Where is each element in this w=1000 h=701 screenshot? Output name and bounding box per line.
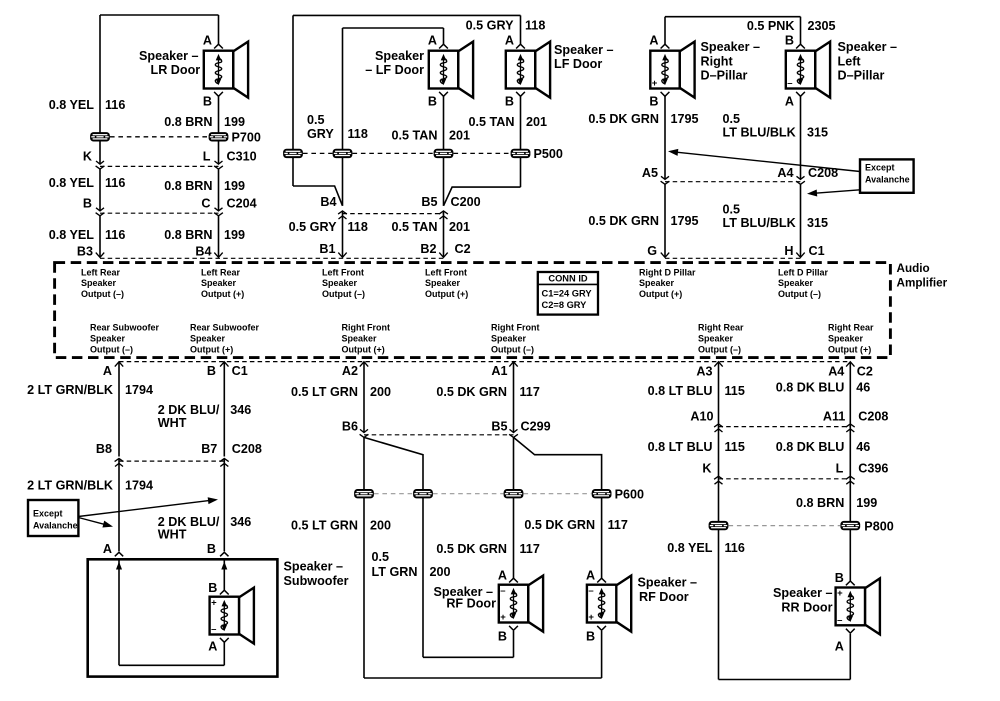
grommet P500 3 xyxy=(434,149,454,158)
wire 0.5 GRY 118 outer left vertical xyxy=(292,15,294,186)
svg-text:Speaker: Speaker xyxy=(828,333,864,343)
wire jog outer-right to B5 xyxy=(444,187,521,206)
svg-text:46: 46 xyxy=(856,381,870,395)
wire jog B5 to fourth vertical xyxy=(514,437,602,578)
svg-text:200: 200 xyxy=(370,519,391,533)
grommet P700 right xyxy=(209,132,229,141)
svg-text:B6: B6 xyxy=(342,420,358,434)
svg-text:–: – xyxy=(500,585,505,596)
svg-text:C: C xyxy=(201,197,210,211)
svg-text:117: 117 xyxy=(520,542,540,556)
svg-text:C208: C208 xyxy=(808,166,838,180)
svg-text:115: 115 xyxy=(725,440,745,454)
wire bottom inside subwoofer box xyxy=(119,664,224,666)
audio amplifier dashed box xyxy=(55,263,891,358)
svg-text:B: B xyxy=(207,364,216,378)
arrow except-avalanche to right wire xyxy=(812,190,860,194)
connector C299 crossing xyxy=(360,429,368,432)
subwoofer enclosure box xyxy=(88,559,278,676)
svg-text:+: + xyxy=(211,597,217,608)
svg-text:199: 199 xyxy=(224,179,245,193)
svg-text:B: B xyxy=(428,95,437,109)
svg-text:Speaker: Speaker xyxy=(375,49,424,63)
svg-text:P800: P800 xyxy=(864,520,893,534)
wire 0.5 GRY 118 inner vertical xyxy=(342,28,344,206)
svg-text:0.8 BRN: 0.8 BRN xyxy=(164,115,212,129)
svg-text:Left D Pillar: Left D Pillar xyxy=(778,267,829,277)
svg-text:Except: Except xyxy=(865,163,895,173)
svg-text:A4: A4 xyxy=(777,166,793,180)
grommet P600 1 xyxy=(354,489,374,498)
svg-text:C1: C1 xyxy=(809,244,825,258)
svg-text:Left Front: Left Front xyxy=(425,267,467,277)
svg-text:Speaker: Speaker xyxy=(425,278,461,288)
svg-text:116: 116 xyxy=(105,176,125,190)
svg-text:0.5 LT GRN: 0.5 LT GRN xyxy=(291,385,358,399)
svg-text:CONN ID: CONN ID xyxy=(548,274,588,284)
svg-text:Speaker –: Speaker – xyxy=(838,40,898,54)
svg-text:118: 118 xyxy=(348,127,368,141)
wire 0.5 DK GRN 1795 upper xyxy=(664,96,666,179)
dashed link P500 xyxy=(303,152,333,154)
svg-text:46: 46 xyxy=(856,440,870,454)
svg-text:Output (–): Output (–) xyxy=(491,344,534,354)
svg-text:Speaker: Speaker xyxy=(491,333,527,343)
box Except Avalanche (top) xyxy=(860,159,914,192)
svg-text:B4: B4 xyxy=(320,195,336,209)
CONN ID table xyxy=(538,272,598,315)
svg-text:–: – xyxy=(588,585,593,596)
dashed link P700 xyxy=(110,136,209,138)
arrow except-avalanche to wire B xyxy=(78,500,213,516)
svg-text:Speaker: Speaker xyxy=(639,278,675,288)
svg-text:C1=24 GRY: C1=24 GRY xyxy=(542,288,593,298)
svg-text:0.8 YEL: 0.8 YEL xyxy=(667,541,713,555)
svg-text:LT GRN: LT GRN xyxy=(372,565,418,579)
dashed link P800 xyxy=(729,525,841,527)
connector C208 crossing bottom-right xyxy=(715,429,723,432)
wire top horizontal LF inner xyxy=(343,27,444,29)
svg-text:Amplifier: Amplifier xyxy=(897,277,948,290)
svg-text:A: A xyxy=(586,569,595,583)
svg-text:0.5 DK GRN: 0.5 DK GRN xyxy=(524,518,595,532)
wire 2 LT GRN/BLK 1794 upper xyxy=(118,362,120,457)
svg-text:117: 117 xyxy=(520,385,540,399)
svg-text:+: + xyxy=(837,588,843,599)
svg-text:1794: 1794 xyxy=(125,479,153,493)
svg-text:201: 201 xyxy=(526,115,547,129)
svg-text:A11: A11 xyxy=(823,410,845,424)
grommet P700 left xyxy=(90,132,110,141)
svg-text:A1: A1 xyxy=(491,364,507,378)
svg-text:315: 315 xyxy=(807,216,828,230)
speaker Subwoofer symbol xyxy=(210,588,254,644)
speaker RF Door right symbol xyxy=(587,576,631,632)
grommet P600 2 xyxy=(413,489,433,498)
svg-text:0.5: 0.5 xyxy=(723,112,741,126)
wire 0.8 YEL 116 segment 2 xyxy=(99,169,101,211)
svg-text:C200: C200 xyxy=(451,195,481,209)
svg-text:0.5 DK GRN: 0.5 DK GRN xyxy=(436,385,507,399)
svg-text:P600: P600 xyxy=(615,488,644,502)
wire jog outer-left to B4 xyxy=(293,186,343,206)
svg-text:A: A xyxy=(103,542,112,556)
svg-text:C396: C396 xyxy=(858,462,888,476)
svg-text:Output (+): Output (+) xyxy=(190,344,233,354)
wire 0.8 BRN 199 segment 2 xyxy=(218,169,220,211)
wire 0.5 LT GRN 200 straight down xyxy=(363,437,365,678)
svg-text:–: – xyxy=(211,624,216,635)
svg-text:A: A xyxy=(785,95,794,109)
svg-text:A2: A2 xyxy=(342,364,358,378)
svg-text:LT BLU/BLK: LT BLU/BLK xyxy=(723,216,796,230)
wire 0.5 DK GRN 117 upper xyxy=(513,362,515,432)
speaker LF Door left symbol xyxy=(429,42,473,98)
speaker RF Door left symbol xyxy=(499,576,543,632)
svg-text:201: 201 xyxy=(449,220,470,234)
svg-text:0.5 DK GRN: 0.5 DK GRN xyxy=(588,112,659,126)
svg-text:– LF Door: – LF Door xyxy=(365,63,424,77)
wire 0.8 BRN 199 (LR door feed, below speaker) xyxy=(218,96,220,164)
svg-text:0.8 DK BLU: 0.8 DK BLU xyxy=(776,381,845,395)
svg-text:A: A xyxy=(208,640,217,654)
svg-text:L: L xyxy=(203,150,211,164)
svg-text:0.5: 0.5 xyxy=(372,550,390,564)
svg-text:0.5 DK GRN: 0.5 DK GRN xyxy=(436,542,507,556)
svg-text:116: 116 xyxy=(105,228,125,242)
wire 2 DK BLU/WHT 346 upper xyxy=(223,362,225,457)
svg-text:K: K xyxy=(702,462,711,476)
svg-text:0.8 LT BLU: 0.8 LT BLU xyxy=(648,440,713,454)
box Except Avalanche (bottom) xyxy=(28,500,78,536)
svg-text:346: 346 xyxy=(230,403,251,417)
svg-text:0.8 YEL: 0.8 YEL xyxy=(49,98,95,112)
svg-text:B1: B1 xyxy=(319,242,335,256)
speaker Speaker - LR Door symbol xyxy=(204,42,248,98)
svg-text:C299: C299 xyxy=(521,420,551,434)
grommet P500 2 xyxy=(333,149,353,158)
svg-text:315: 315 xyxy=(807,126,828,140)
svg-text:A5: A5 xyxy=(642,166,658,180)
wire 0.8 DK BLU 46 upper xyxy=(849,362,851,424)
wire 2 DK BLU/WHT 346 lower xyxy=(223,459,225,552)
svg-text:Avalanche: Avalanche xyxy=(33,521,78,531)
grommet P600 4 xyxy=(592,489,612,498)
svg-text:Speaker –: Speaker – xyxy=(139,49,199,63)
wire jog B6 to second vertical xyxy=(364,437,423,657)
svg-text:0.5: 0.5 xyxy=(723,203,741,217)
svg-text:–: – xyxy=(837,615,842,626)
wire bottom RF right xyxy=(364,677,602,679)
svg-text:0.8 BRN: 0.8 BRN xyxy=(164,179,212,193)
svg-text:Speaker: Speaker xyxy=(322,278,358,288)
svg-text:Rear Subwoofer: Rear Subwoofer xyxy=(190,323,260,333)
wire subwoofer A to bottom xyxy=(223,642,225,665)
svg-text:Output (+): Output (+) xyxy=(201,289,244,299)
svg-text:200: 200 xyxy=(370,385,391,399)
svg-text:D–Pillar: D–Pillar xyxy=(838,69,885,83)
svg-text:L: L xyxy=(836,462,844,476)
arrow except-avalanche to wire A xyxy=(78,518,108,526)
wire top horizontal LF outer xyxy=(293,14,521,16)
svg-text:Right D Pillar: Right D Pillar xyxy=(639,267,696,277)
svg-text:B: B xyxy=(785,34,794,48)
svg-text:Speaker –: Speaker – xyxy=(284,560,344,574)
wire 0.5 LT BLU/BLK 315 lower xyxy=(800,184,802,257)
svg-text:Speaker: Speaker xyxy=(778,278,814,288)
amp connector thin dashed top-left xyxy=(100,257,444,259)
svg-text:0.5 PNK: 0.5 PNK xyxy=(747,19,795,33)
svg-text:0.5 DK GRN: 0.5 DK GRN xyxy=(588,214,659,228)
svg-text:A10: A10 xyxy=(690,410,713,424)
svg-text:Output (–): Output (–) xyxy=(90,344,133,354)
wire 0.8 BRN 199 segment 3 xyxy=(218,216,220,258)
svg-text:Left Rear: Left Rear xyxy=(201,267,241,277)
svg-text:118: 118 xyxy=(348,220,368,234)
wire bottom RR xyxy=(719,679,851,681)
svg-text:P500: P500 xyxy=(534,147,563,161)
svg-text:B2: B2 xyxy=(420,242,436,256)
svg-text:346: 346 xyxy=(230,515,251,529)
svg-text:199: 199 xyxy=(856,496,877,510)
svg-text:0.5 GRY: 0.5 GRY xyxy=(466,19,514,33)
arrow except-avalanche to left wire xyxy=(673,152,860,172)
wire 0.5 GRY 118 to amp xyxy=(342,211,344,257)
svg-text:Right Rear: Right Rear xyxy=(698,323,744,333)
svg-text:B4: B4 xyxy=(195,245,211,259)
amp connector thin dashed bottom xyxy=(119,361,851,363)
svg-text:B: B xyxy=(649,95,658,109)
connector C204 crossing xyxy=(96,208,104,211)
connector C396 crossing xyxy=(715,481,723,484)
svg-text:B5: B5 xyxy=(421,195,437,209)
grommet P500 1 xyxy=(283,149,303,158)
wire 0.5 TAN 201 to amp xyxy=(443,211,445,257)
svg-text:0.8 BRN: 0.8 BRN xyxy=(796,496,844,510)
svg-text:+: + xyxy=(500,612,506,623)
svg-text:D–Pillar: D–Pillar xyxy=(701,69,748,83)
svg-text:116: 116 xyxy=(725,541,745,555)
svg-text:0.5 TAN: 0.5 TAN xyxy=(469,115,515,129)
svg-text:G: G xyxy=(647,244,657,258)
svg-text:Speaker: Speaker xyxy=(342,333,378,343)
wire above LF left speaker to A xyxy=(443,28,445,45)
svg-text:Speaker: Speaker xyxy=(698,333,734,343)
svg-text:B: B xyxy=(498,630,507,644)
svg-text:C310: C310 xyxy=(227,150,257,164)
svg-text:A: A xyxy=(835,640,844,654)
svg-text:C2=8 GRY: C2=8 GRY xyxy=(542,300,588,310)
svg-text:2 LT GRN/BLK: 2 LT GRN/BLK xyxy=(27,479,113,493)
svg-text:199: 199 xyxy=(224,228,245,242)
svg-text:Speaker: Speaker xyxy=(201,278,237,288)
svg-text:Output (+): Output (+) xyxy=(342,344,385,354)
svg-text:B3: B3 xyxy=(77,245,93,259)
svg-text:Left Rear: Left Rear xyxy=(81,267,121,277)
svg-text:Speaker: Speaker xyxy=(190,333,226,343)
wire 0.8 DK BLU 46 mid xyxy=(849,424,851,477)
wire 0.8 YEL 116 (LR door return, left vertical) xyxy=(99,15,101,164)
svg-text:A: A xyxy=(498,569,507,583)
svg-text:B: B xyxy=(208,581,217,595)
wire 2 LT GRN/BLK 1794 lower xyxy=(118,459,120,552)
svg-text:0.5 GRY: 0.5 GRY xyxy=(289,220,337,234)
svg-text:Left: Left xyxy=(838,55,862,69)
svg-text:199: 199 xyxy=(224,115,245,129)
svg-text:RF Door: RF Door xyxy=(639,590,689,604)
svg-text:201: 201 xyxy=(449,129,470,143)
svg-text:A3: A3 xyxy=(696,365,712,379)
svg-text:GRY: GRY xyxy=(307,127,334,141)
svg-text:WHT: WHT xyxy=(158,416,187,430)
svg-text:Output (–): Output (–) xyxy=(322,289,365,299)
svg-text:Output (–): Output (–) xyxy=(778,289,821,299)
svg-text:0.8 LT BLU: 0.8 LT BLU xyxy=(648,384,713,398)
wire RF left B to bottom xyxy=(513,631,515,657)
svg-text:Right Front: Right Front xyxy=(491,323,540,333)
svg-text:0.8 BRN: 0.8 BRN xyxy=(164,228,212,242)
svg-text:B8: B8 xyxy=(96,442,112,456)
svg-text:2 LT GRN/BLK: 2 LT GRN/BLK xyxy=(27,383,113,397)
connector C208 crossing bottom-left xyxy=(115,463,123,466)
svg-text:RR Door: RR Door xyxy=(781,601,832,615)
svg-text:Right Rear: Right Rear xyxy=(828,323,874,333)
wire left vertical to Right D-pillar A xyxy=(664,17,666,45)
grommet P600 3 xyxy=(504,489,524,498)
svg-text:Output (+): Output (+) xyxy=(828,344,871,354)
svg-text:Output (+): Output (+) xyxy=(425,289,468,299)
svg-text:–: – xyxy=(787,78,792,89)
svg-text:B: B xyxy=(83,197,92,211)
svg-text:LR Door: LR Door xyxy=(151,63,201,77)
svg-text:116: 116 xyxy=(105,98,125,112)
svg-text:Right: Right xyxy=(701,55,734,69)
svg-text:Speaker: Speaker xyxy=(81,278,117,288)
svg-text:0.8 YEL: 0.8 YEL xyxy=(49,176,95,190)
wire 0.8 YEL 116 segment 3 xyxy=(99,216,101,258)
wire 0.5 DK GRN 1795 lower xyxy=(664,184,666,257)
svg-text:LF Door: LF Door xyxy=(554,57,602,71)
wire 0.8 LT BLU 115 mid xyxy=(718,424,720,477)
wire A inside subwoofer box xyxy=(118,559,120,665)
svg-text:P700: P700 xyxy=(232,131,261,145)
svg-text:Speaker –: Speaker – xyxy=(638,576,698,590)
wire 0.5 TAN 201 below LF left speaker xyxy=(443,96,445,206)
svg-text:Right Front: Right Front xyxy=(342,323,391,333)
svg-text:Except: Except xyxy=(33,509,63,519)
svg-text:A: A xyxy=(649,34,658,48)
speaker Left D-Pillar symbol xyxy=(786,42,830,98)
svg-text:+: + xyxy=(588,612,594,623)
svg-text:117: 117 xyxy=(608,518,628,532)
svg-text:Speaker: Speaker xyxy=(90,333,126,343)
svg-text:B7: B7 xyxy=(201,442,217,456)
grommet P800 left xyxy=(709,521,729,530)
wire B inside subwoofer box xyxy=(223,559,225,590)
wire 0.5 DK GRN 117 straight down xyxy=(513,437,515,578)
svg-text:0.5: 0.5 xyxy=(307,113,325,127)
svg-text:B: B xyxy=(207,542,216,556)
svg-text:B: B xyxy=(203,95,212,109)
svg-text:0.5 TAN: 0.5 TAN xyxy=(392,129,438,143)
svg-text:1794: 1794 xyxy=(125,383,153,397)
wire 0.8 YEL 116 lower-left xyxy=(718,476,720,679)
svg-text:B: B xyxy=(505,95,514,109)
svg-text:C2: C2 xyxy=(455,242,471,256)
dashed link P600 xyxy=(374,493,413,495)
svg-text:0.5 LT GRN: 0.5 LT GRN xyxy=(291,519,358,533)
svg-text:1795: 1795 xyxy=(671,112,699,126)
svg-text:Output (+): Output (+) xyxy=(639,289,682,299)
svg-text:C1: C1 xyxy=(232,364,248,378)
svg-text:WHT: WHT xyxy=(158,528,187,542)
svg-text:A: A xyxy=(428,34,437,48)
svg-text:A: A xyxy=(103,364,112,378)
svg-text:K: K xyxy=(83,150,92,164)
connector C310 crossing xyxy=(96,161,104,164)
svg-text:1795: 1795 xyxy=(671,214,699,228)
wire 0.8 LT BLU 115 upper xyxy=(718,362,720,424)
svg-text:RF Door: RF Door xyxy=(446,597,496,611)
wire RF right B to bottom xyxy=(601,631,603,678)
svg-text:115: 115 xyxy=(725,384,745,398)
grommet P800 right xyxy=(840,521,860,530)
svg-text:2 DK BLU/: 2 DK BLU/ xyxy=(158,403,220,417)
wire above LR speaker to A xyxy=(218,15,220,45)
svg-text:+: + xyxy=(652,78,658,89)
svg-text:C208: C208 xyxy=(858,410,888,424)
svg-text:H: H xyxy=(784,244,793,258)
amp connector thin dashed top-right xyxy=(665,257,801,259)
svg-text:0.8 DK BLU: 0.8 DK BLU xyxy=(776,440,845,454)
svg-text:A4: A4 xyxy=(828,365,844,379)
svg-text:B: B xyxy=(835,571,844,585)
svg-text:Speaker –: Speaker – xyxy=(773,586,833,600)
svg-text:Speaker –: Speaker – xyxy=(554,43,614,57)
svg-text:Audio: Audio xyxy=(897,262,930,275)
svg-text:LT BLU/BLK: LT BLU/BLK xyxy=(723,126,796,140)
svg-text:B5: B5 xyxy=(491,420,507,434)
connector C208 crossing top xyxy=(661,176,669,179)
svg-text:0.8 YEL: 0.8 YEL xyxy=(49,228,95,242)
svg-text:Output (–): Output (–) xyxy=(698,344,741,354)
svg-text:2305: 2305 xyxy=(808,19,836,33)
wire RR A to bottom xyxy=(849,634,851,680)
wire bottom RF left xyxy=(423,656,514,658)
svg-text:Avalanche: Avalanche xyxy=(865,175,910,185)
svg-text:Speaker –: Speaker – xyxy=(701,40,761,54)
speaker RR Door symbol xyxy=(836,578,880,634)
svg-text:C208: C208 xyxy=(232,442,262,456)
svg-text:200: 200 xyxy=(430,565,451,579)
wire 0.8 BRN 199 lower-right xyxy=(849,476,851,581)
wire 0.5 LT GRN 200 upper xyxy=(363,362,365,432)
svg-text:A: A xyxy=(203,34,212,48)
svg-text:Rear Subwoofer: Rear Subwoofer xyxy=(90,323,160,333)
connector C200 crossing xyxy=(339,216,347,219)
svg-text:B: B xyxy=(586,630,595,644)
svg-text:0.5 TAN: 0.5 TAN xyxy=(392,220,438,234)
speaker Right D-Pillar symbol xyxy=(650,42,694,98)
svg-text:A: A xyxy=(505,34,514,48)
wire 0.5 TAN 201 below LF right speaker xyxy=(520,96,522,187)
wire right vertical to Left D-pillar B xyxy=(800,17,802,45)
svg-text:118: 118 xyxy=(525,19,545,33)
svg-text:C204: C204 xyxy=(227,197,257,211)
svg-text:C2: C2 xyxy=(857,365,873,379)
wire 0.5 LT BLU/BLK 315 upper xyxy=(800,96,802,179)
wire top horizontal LR door xyxy=(100,14,219,16)
